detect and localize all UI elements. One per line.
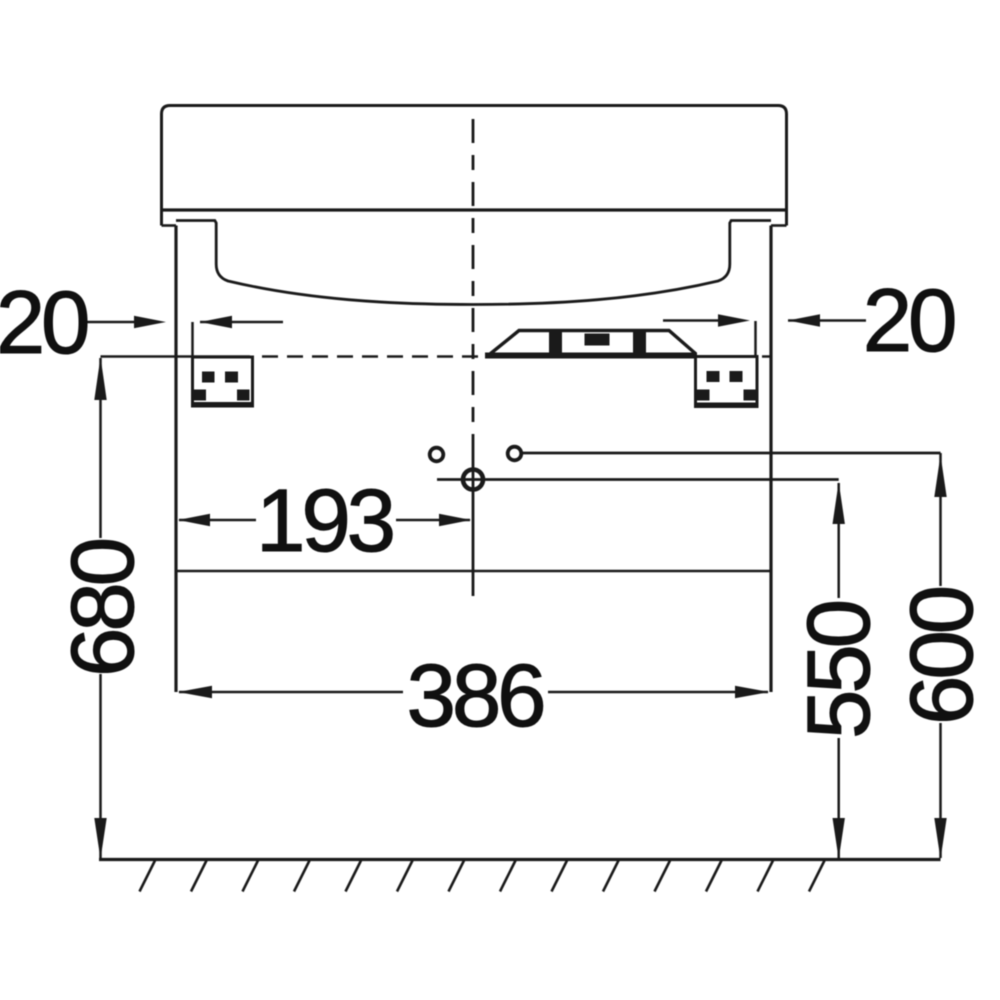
basin rim left step <box>162 224 177 227</box>
centerline solid lower <box>472 458 475 596</box>
arrow 20-left outer <box>134 316 166 328</box>
dim 20 right line <box>663 319 720 322</box>
arrow 680 down <box>94 818 106 859</box>
arrow 193 left <box>178 514 210 526</box>
arrowheads <box>94 314 946 859</box>
dim 680 vertical line <box>99 358 102 538</box>
svg-text:193: 193 <box>256 470 393 570</box>
drain trap cover <box>490 331 696 355</box>
svg-text:600: 600 <box>891 587 991 725</box>
cabinet left wall <box>174 226 177 693</box>
bracket right screw dots <box>697 371 757 401</box>
dim 20 left line <box>84 321 139 324</box>
arrow 600 down <box>934 818 946 859</box>
basin rim bottom line <box>162 208 787 211</box>
arrow 386 left <box>178 686 212 698</box>
bracket left <box>191 357 254 406</box>
dim 386 line <box>179 691 403 694</box>
drain hole circle <box>463 470 483 490</box>
ground hatching <box>140 861 825 892</box>
extension line to 600 <box>522 452 941 455</box>
cabinet right wall <box>769 226 772 693</box>
arrow 20-right inner <box>718 314 750 326</box>
extension line to 550 <box>437 478 839 481</box>
dim 550 vertical line <box>837 483 840 598</box>
dim 600 vertical line <box>939 453 942 586</box>
basin rim right step <box>771 224 787 227</box>
svg-text:386: 386 <box>407 645 544 745</box>
svg-text:680: 680 <box>52 539 152 677</box>
basin bowl profile <box>176 221 771 305</box>
svg-text:20: 20 <box>863 270 955 370</box>
basin outer rim silhouette <box>162 106 787 226</box>
hidden mounting line dashed <box>262 355 771 358</box>
arrow 20-left inner <box>200 316 232 328</box>
dim 20 right extension <box>754 321 757 357</box>
bracket left screw dots <box>193 372 250 401</box>
arrow 680 up <box>94 357 106 400</box>
dim 20 left extension <box>191 322 194 357</box>
arrow 600 up <box>934 455 946 497</box>
mounting hole left <box>430 448 444 462</box>
arrow 550 up <box>833 482 845 524</box>
centerline dashed <box>472 119 475 458</box>
extension 680 top <box>101 355 251 358</box>
mounting hole right <box>508 447 522 461</box>
arrow 550 down <box>833 818 845 859</box>
arrow 193 right <box>439 514 471 526</box>
svg-text:550: 550 <box>788 601 888 739</box>
arrow 20-right outer <box>788 314 820 326</box>
cabinet bottom edge <box>176 570 771 573</box>
dim 193 line <box>179 519 256 522</box>
ground line <box>99 858 941 861</box>
svg-text:20: 20 <box>0 272 88 372</box>
arrow 386 right <box>735 686 769 698</box>
bracket right <box>694 357 759 407</box>
